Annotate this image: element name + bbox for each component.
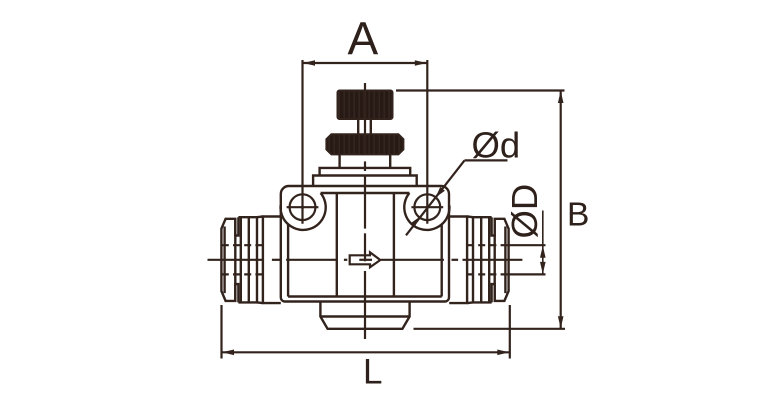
svg-text:B: B: [567, 197, 589, 234]
dimension B extension bottom: [414, 328, 566, 330]
dimension L line: [222, 351, 510, 353]
dimension A extension left: [301, 60, 303, 224]
left boss lobe arc: [281, 193, 326, 230]
screw hole right circle: [414, 194, 440, 220]
dimension OD arrows: [540, 246, 546, 274]
right fitting collet rings: [473, 217, 492, 302]
body inner right wall: [441, 224, 443, 296]
cartridge left line: [336, 193, 338, 297]
dimension A line: [303, 62, 428, 64]
bottom boss shoulder line: [320, 315, 409, 317]
collar under disc: [340, 154, 391, 168]
right fitting taper: [467, 217, 473, 304]
dimension A extension right: [426, 60, 428, 224]
left release button: [221, 219, 235, 301]
left fitting taper: [257, 217, 263, 304]
body inner top edge: [321, 192, 410, 194]
right fitting groove: [492, 217, 495, 302]
dimension L extension left: [220, 305, 222, 359]
valve body outline: [281, 186, 449, 302]
svg-text:L: L: [363, 353, 382, 392]
right fitting sleeve: [449, 217, 467, 304]
dimension B line: [560, 91, 562, 329]
left fitting groove: [235, 217, 238, 302]
svg-text:ØD: ØD: [504, 184, 545, 239]
knurled locking disc: [326, 134, 403, 154]
svg-text:A: A: [348, 13, 379, 65]
vertical centerline: [364, 83, 366, 339]
dimension OD line: [542, 211, 544, 275]
horizontal centerline: [208, 259, 523, 261]
dimension A arrows: [303, 60, 427, 66]
leader line Od: [406, 160, 465, 235]
dimension L extension right: [509, 305, 511, 359]
dimension OD extension lines: [510, 245, 546, 274]
dimension B arrows: [558, 91, 564, 329]
screw hole left crosshair: [287, 206, 319, 208]
dimension L arrows: [222, 350, 510, 356]
flow arrow symbol: [350, 252, 381, 267]
dimension B extension top: [396, 89, 565, 91]
left fitting bore hidden lines: [222, 245, 263, 274]
body inner left wall: [287, 224, 289, 296]
left fitting collet rings: [238, 217, 257, 302]
knob (top knurled): [338, 91, 393, 120]
svg-text:Ød: Ød: [472, 125, 521, 166]
right boss lobe arc: [404, 193, 449, 230]
body inner bottom edge: [288, 295, 442, 297]
screw hole right crosshair: [411, 206, 443, 208]
right fitting bore hidden lines: [467, 245, 508, 274]
base step 1: [320, 168, 411, 176]
cartridge right line: [393, 193, 395, 297]
bottom boss: [320, 302, 409, 329]
base step 2: [313, 176, 417, 187]
left fitting sleeve: [263, 217, 281, 304]
knob stem: [358, 119, 371, 134]
right release button: [495, 219, 509, 301]
leader Od arrows: [410, 187, 445, 228]
screw hole left circle: [290, 194, 316, 220]
